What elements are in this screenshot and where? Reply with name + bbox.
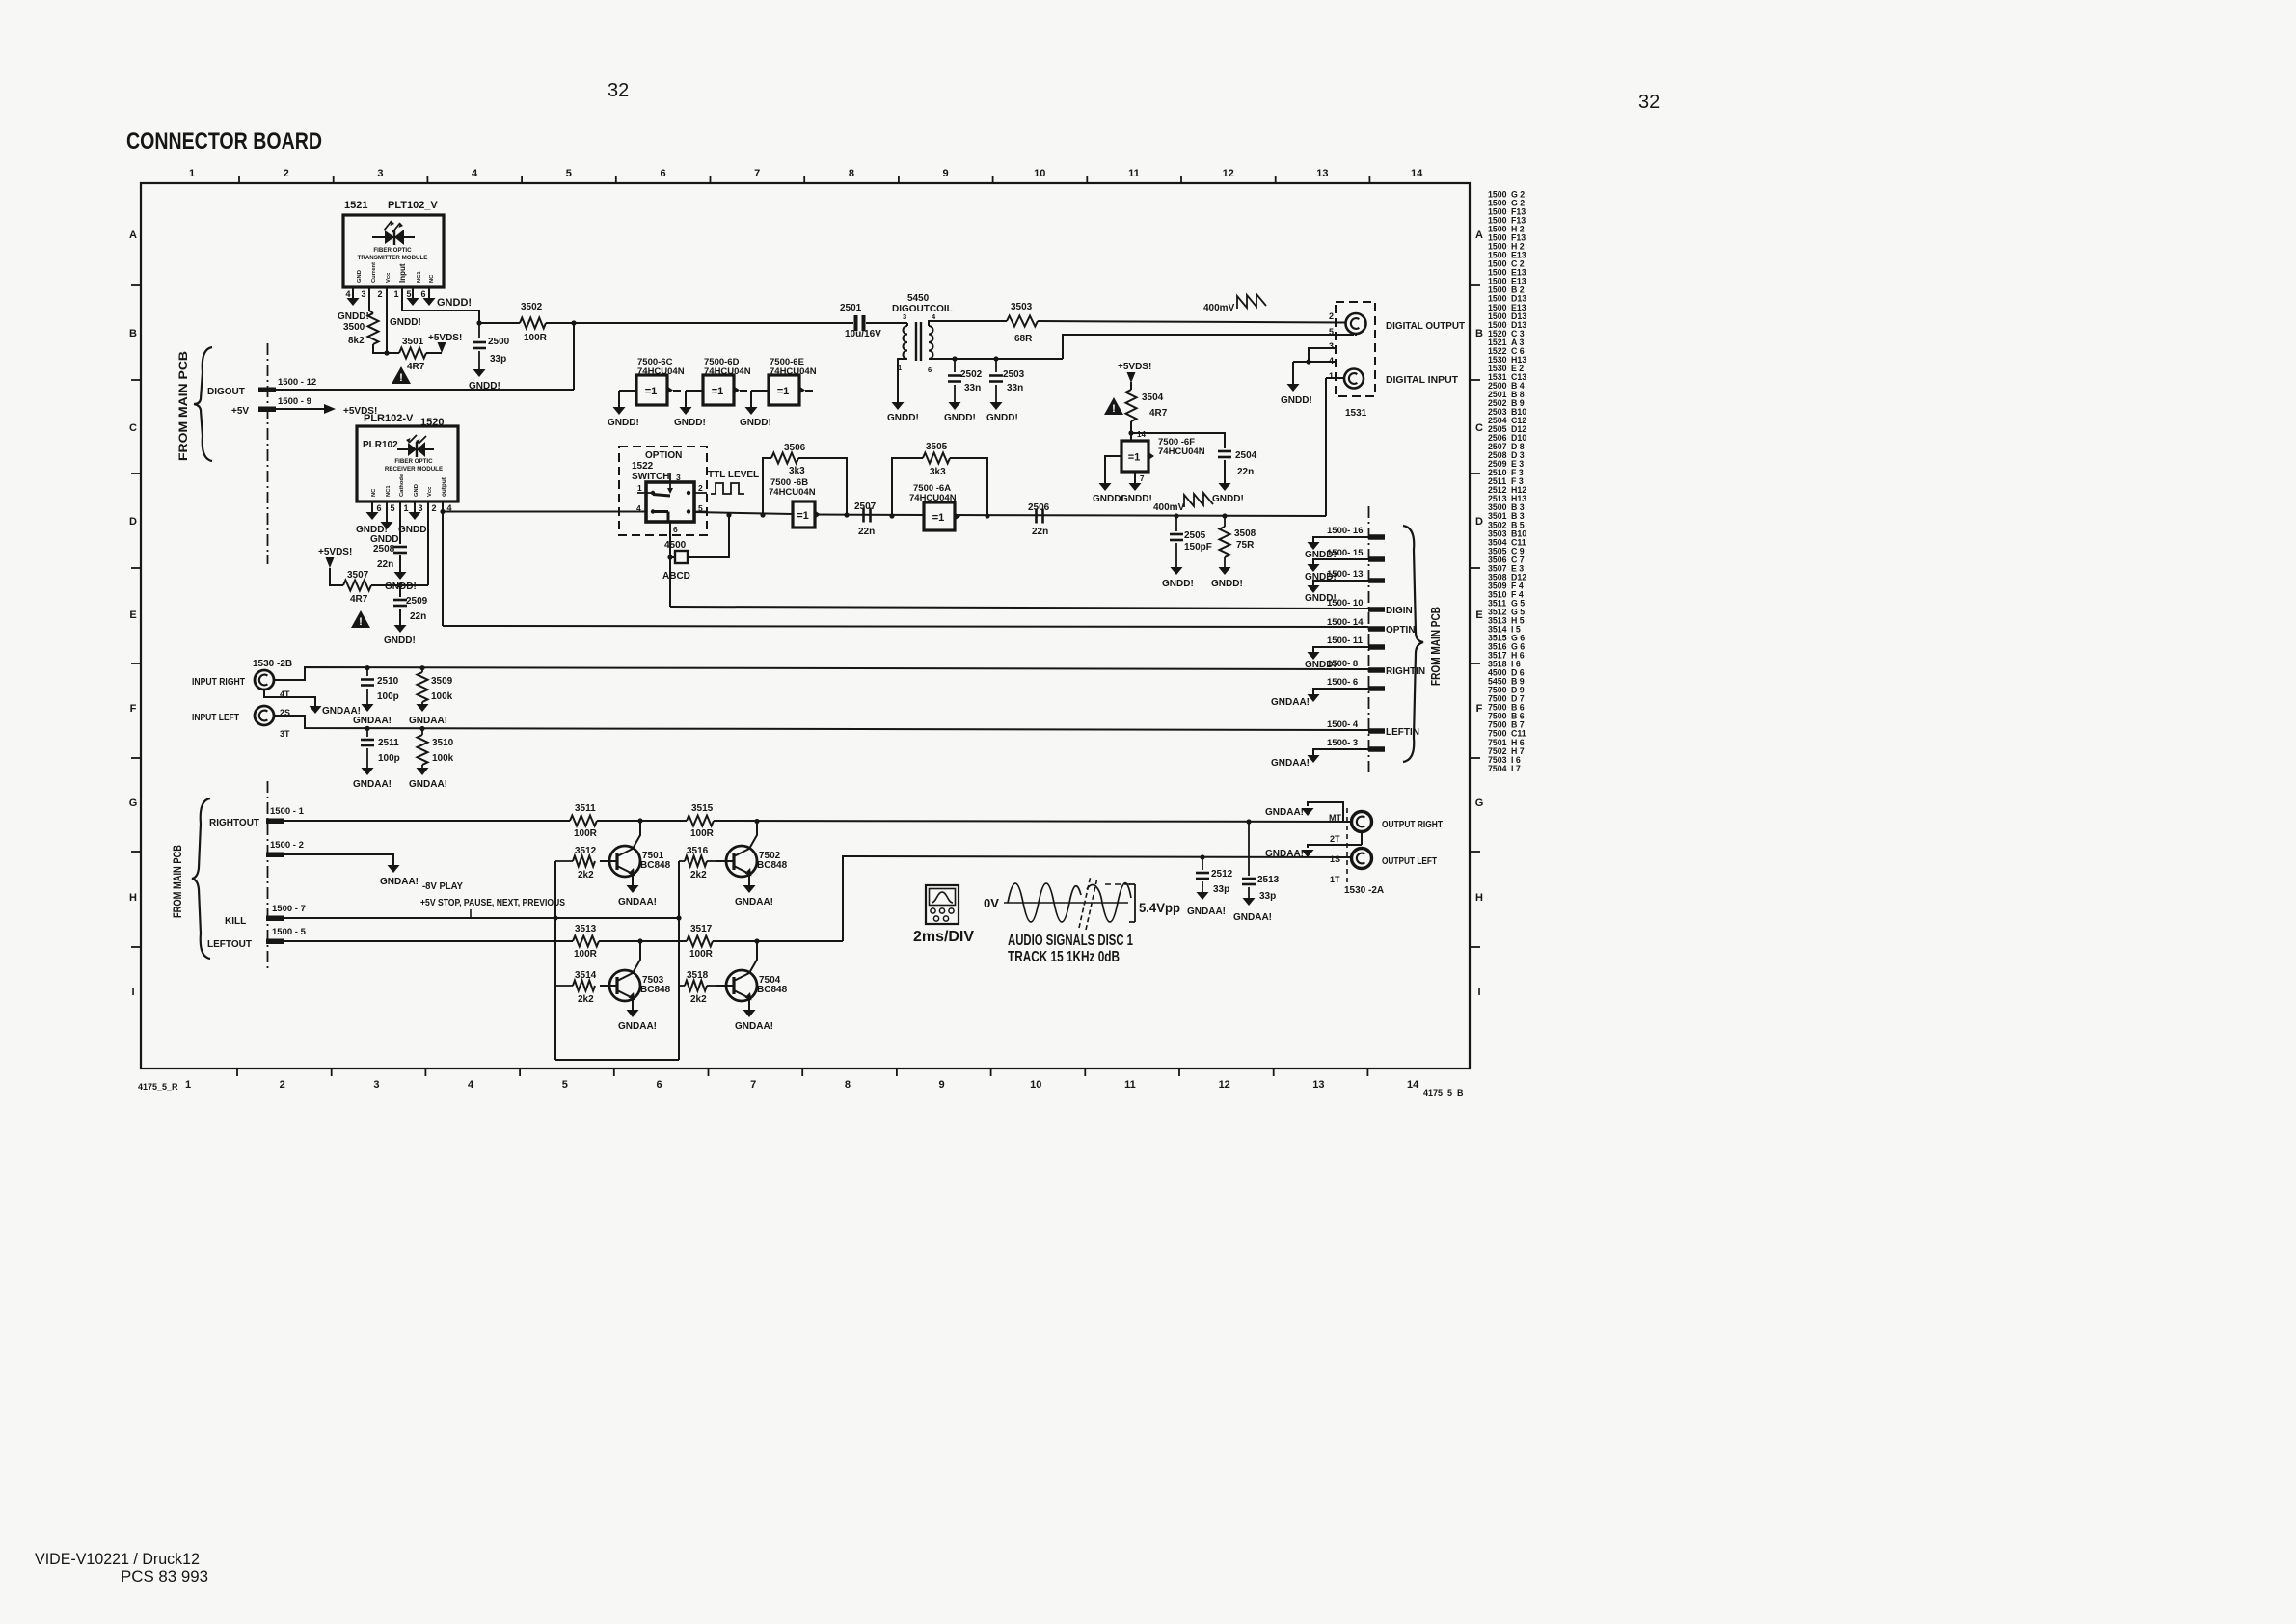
net label TTL LEVEL bbox=[708, 470, 759, 480]
fiber optic transmitter module 1521 PLT102_V bbox=[343, 200, 444, 287]
ground GNDD under C2503 bbox=[986, 402, 1018, 423]
svg-text:1: 1 bbox=[1329, 371, 1334, 381]
svg-text:OUTPUT RIGHT: OUTPUT RIGHT bbox=[1382, 819, 1443, 830]
svg-text:32: 32 bbox=[1638, 92, 1660, 113]
wire Q7503 emitter bbox=[632, 998, 634, 1010]
svg-text:2: 2 bbox=[284, 168, 289, 179]
pin label 3T bbox=[280, 729, 290, 739]
svg-text:3507: 3507 bbox=[347, 570, 369, 581]
wire C2504 to ground bbox=[1224, 460, 1226, 483]
svg-text:2: 2 bbox=[1329, 311, 1334, 321]
dash-dot connector boundary lower-left bbox=[267, 781, 269, 972]
warning triangle near R3504 bbox=[1104, 397, 1123, 415]
svg-text:GNDD!: GNDD! bbox=[887, 413, 919, 423]
svg-text:2508: 2508 bbox=[373, 544, 395, 555]
svg-text:B: B bbox=[1475, 328, 1483, 339]
brace FROM MAIN PCB right bbox=[1403, 526, 1443, 762]
wire kill riser right bbox=[678, 861, 680, 1060]
wire pin4 ground link bbox=[1293, 361, 1336, 363]
svg-text:3: 3 bbox=[418, 503, 422, 513]
net label OPTIN bbox=[1386, 625, 1416, 636]
svg-text:+5VDS!: +5VDS! bbox=[1118, 362, 1151, 372]
ground GNDAA under C2513 bbox=[1233, 898, 1272, 923]
svg-text:RECEIVER MODULE: RECEIVER MODULE bbox=[385, 466, 443, 473]
ground GNDAA under C2510 bbox=[353, 704, 392, 726]
page number 32 left bbox=[608, 80, 629, 101]
svg-text:2501: 2501 bbox=[840, 303, 862, 313]
waveform sine trace bbox=[1008, 883, 1131, 922]
svg-text:DIGIN: DIGIN bbox=[1386, 606, 1413, 616]
capacitor C2500 33p bbox=[473, 323, 510, 369]
svg-text:1: 1 bbox=[403, 503, 408, 513]
connector stub 1500-16 bbox=[1327, 526, 1385, 540]
wire digital output return bbox=[1063, 335, 1354, 359]
svg-text:3T: 3T bbox=[280, 729, 290, 739]
wire R3504 to node 14 bbox=[1131, 421, 1146, 439]
wire R3502 to C2501 bbox=[546, 322, 853, 324]
svg-text:Cathode: Cathode bbox=[399, 474, 405, 497]
svg-text:GNDAA!: GNDAA! bbox=[1187, 907, 1226, 917]
wire C2501 to transformer bbox=[866, 322, 907, 324]
net label 400mV upper with sawtooth bbox=[1203, 294, 1266, 313]
wire DIGIN to main pcb bbox=[670, 607, 1368, 609]
ground GNDAA at 1500-2 bbox=[380, 865, 419, 887]
note +5V STOP PAUSE NEXT PREVIOUS bbox=[420, 898, 565, 908]
svg-text:2500: 2500 bbox=[488, 337, 510, 347]
svg-text:33p: 33p bbox=[1259, 891, 1276, 902]
svg-text:DIGOUTCOIL: DIGOUTCOIL bbox=[892, 304, 953, 314]
svg-text:GNDAA!: GNDAA! bbox=[735, 897, 773, 907]
resistor R3518 2k2 bbox=[679, 970, 718, 1005]
wire R3513 to R3517 bbox=[599, 940, 687, 942]
svg-text:DIGITAL OUTPUT: DIGITAL OUTPUT bbox=[1386, 320, 1466, 332]
svg-text:74HCU04N: 74HCU04N bbox=[769, 487, 816, 498]
ground GNDD under C2505 bbox=[1162, 567, 1194, 589]
wire +5VDS to R3504 bbox=[1130, 382, 1132, 390]
module 1520 pin numbers 6 5 1 3 2 4 bbox=[376, 503, 451, 513]
svg-text:1500- 15: 1500- 15 bbox=[1327, 548, 1364, 558]
wire LEFTOUT to R3513 bbox=[284, 940, 573, 942]
svg-text:2k2: 2k2 bbox=[690, 994, 707, 1005]
ground GNDD pin4 of 1521 bbox=[338, 298, 369, 322]
wire 1520 pin3 bbox=[414, 501, 416, 512]
svg-text:GNDAA!: GNDAA! bbox=[735, 1021, 773, 1032]
wire to GNDD bbox=[1292, 362, 1294, 384]
switch 1522 contacts bbox=[636, 473, 707, 534]
net label LEFTIN bbox=[1386, 727, 1419, 738]
net label RIGHTIN bbox=[1386, 666, 1425, 677]
svg-text:GNDD!: GNDD! bbox=[1212, 494, 1244, 504]
oscilloscope pictogram bbox=[926, 885, 959, 924]
svg-text:5: 5 bbox=[1329, 327, 1334, 337]
svg-text:BC848: BC848 bbox=[757, 985, 788, 995]
wire stub 13 to ground bbox=[1313, 581, 1368, 585]
capacitor C2505 150pF bbox=[1170, 516, 1212, 567]
svg-text:6: 6 bbox=[660, 168, 665, 179]
power +5VDS! at R3501 bbox=[428, 333, 462, 353]
svg-text:2511: 2511 bbox=[378, 738, 399, 748]
svg-text:3514: 3514 bbox=[575, 970, 597, 981]
svg-text:1500- 14: 1500- 14 bbox=[1327, 617, 1364, 628]
power +5VDS! at R3504 bbox=[1118, 362, 1151, 383]
node junction DIGOUT riser bbox=[571, 320, 576, 325]
svg-text:GNDD!: GNDD! bbox=[986, 413, 1018, 423]
ground GNDD at stub 16 bbox=[1305, 542, 1337, 560]
connector stub KILL 1500-7 bbox=[225, 904, 306, 927]
svg-text:Current: Current bbox=[371, 262, 377, 283]
svg-text:=1: =1 bbox=[777, 386, 790, 397]
svg-text:GNDD!: GNDD! bbox=[1281, 395, 1312, 406]
tick below note bbox=[470, 909, 472, 917]
wire 6E input ground bbox=[751, 391, 769, 407]
inverter U7500-6D 74HCU04N bbox=[703, 357, 751, 405]
svg-text:D: D bbox=[129, 516, 137, 528]
node junction R3505 left bbox=[889, 513, 894, 518]
connector stub 1500-15 bbox=[1327, 548, 1385, 562]
connector stub 1500-2 bbox=[266, 840, 304, 857]
svg-text:100p: 100p bbox=[378, 753, 400, 764]
svg-text:8: 8 bbox=[849, 168, 854, 179]
svg-text:100R: 100R bbox=[524, 333, 548, 343]
resistor R3505 3k3 feedback bbox=[892, 442, 987, 516]
node junction receiver output bbox=[440, 509, 445, 514]
svg-text:!: ! bbox=[399, 372, 403, 384]
svg-text:GNDD!: GNDD! bbox=[390, 317, 421, 328]
power +5VDS! at R3507 bbox=[318, 547, 352, 568]
svg-text:14: 14 bbox=[1411, 168, 1423, 179]
svg-text:1: 1 bbox=[189, 168, 195, 179]
ground GNDD pin6 of 1520 bbox=[356, 512, 388, 535]
node junction C2503 bbox=[993, 356, 998, 361]
net label +5VDS! at arrow bbox=[343, 406, 377, 417]
svg-text:1500- 16: 1500- 16 bbox=[1327, 526, 1364, 536]
svg-text:=1: =1 bbox=[797, 510, 809, 522]
wire Q7501 collector bbox=[633, 821, 640, 849]
waveform break slashes bbox=[1079, 876, 1097, 930]
svg-text:1500- 10: 1500- 10 bbox=[1327, 598, 1364, 609]
svg-text:KILL: KILL bbox=[225, 916, 246, 927]
svg-text:=1: =1 bbox=[645, 386, 658, 397]
svg-text:68R: 68R bbox=[1014, 334, 1033, 344]
svg-text:1T: 1T bbox=[1330, 875, 1340, 884]
svg-text:2k2: 2k2 bbox=[578, 994, 594, 1005]
inverter U7500-6E 74HCU04N bbox=[769, 357, 817, 405]
fiber optic receiver module 1520 PLR102-V bbox=[357, 413, 458, 501]
svg-text:150pF: 150pF bbox=[1184, 542, 1212, 553]
svg-text:5450: 5450 bbox=[907, 293, 930, 304]
svg-text:2: 2 bbox=[280, 1079, 285, 1091]
wire kill riser left bbox=[554, 861, 556, 1060]
connector stub +5V 1500-9 bbox=[231, 396, 311, 417]
wire RIGHTOUT to R3511 bbox=[284, 820, 570, 822]
svg-text:GNDAA!: GNDAA! bbox=[380, 877, 419, 887]
connector stub RIGHTOUT 1500-1 bbox=[209, 806, 305, 828]
svg-text:400mV: 400mV bbox=[1153, 502, 1185, 513]
svg-text:OUTPUT LEFT: OUTPUT LEFT bbox=[1382, 855, 1437, 867]
wire pin3 ground link bbox=[1309, 348, 1336, 362]
svg-text:2: 2 bbox=[431, 503, 436, 513]
svg-text:FROM MAIN PCB: FROM MAIN PCB bbox=[173, 845, 184, 918]
rca jack DIGITAL INPUT bbox=[1344, 369, 1459, 389]
wire 1500-2 to ground bbox=[284, 854, 393, 865]
svg-text:GNDAA!: GNDAA! bbox=[353, 779, 392, 790]
wire 6F pin7 bbox=[1135, 472, 1145, 483]
wire DIGOUT from main pcb bbox=[271, 389, 574, 391]
wire Q7503 collector bbox=[633, 941, 640, 973]
svg-text:GNDD!: GNDD! bbox=[338, 311, 369, 322]
svg-text:!: ! bbox=[359, 616, 363, 628]
svg-text:GNDD!: GNDD! bbox=[608, 418, 639, 428]
svg-text:22n: 22n bbox=[1237, 467, 1254, 477]
wire 6C input ground bbox=[619, 391, 636, 407]
node junction R3509 bbox=[419, 665, 424, 670]
svg-text:7: 7 bbox=[1140, 474, 1145, 483]
svg-text:GND: GND bbox=[357, 270, 363, 283]
svg-text:2510: 2510 bbox=[377, 676, 399, 687]
svg-text:3: 3 bbox=[377, 168, 383, 179]
node junction R3510 bbox=[419, 726, 424, 731]
transformer 5450 DIGOUTCOIL bbox=[892, 293, 953, 374]
svg-text:1500 - 12: 1500 - 12 bbox=[278, 377, 316, 388]
svg-text:GNDAA!: GNDAA! bbox=[1271, 758, 1310, 769]
wire node to R3502 bbox=[479, 322, 520, 324]
capacitor C2512 33p bbox=[1196, 857, 1233, 895]
node junction R3506 left bbox=[760, 512, 765, 517]
svg-text:=1: =1 bbox=[932, 512, 945, 524]
svg-text:2513: 2513 bbox=[1257, 875, 1280, 885]
waveform 0V axis bbox=[984, 896, 1128, 910]
ground GNDD pin5 of 1520 bbox=[370, 522, 402, 545]
ground GNDAA Q7501 bbox=[618, 885, 657, 907]
capacitor C2507 22n series bbox=[854, 501, 877, 537]
svg-text:33p: 33p bbox=[490, 354, 506, 365]
resistor R3512 2k2 bbox=[555, 846, 597, 880]
node junction pin14 bbox=[1128, 430, 1133, 435]
svg-text:3504: 3504 bbox=[1142, 392, 1164, 403]
svg-text:4: 4 bbox=[636, 503, 641, 513]
resistor R3506 3k3 feedback bbox=[763, 443, 847, 515]
note AUDIO SIGNALS DISC 1 bbox=[1008, 933, 1133, 949]
wire 1521 pin5 bbox=[412, 287, 414, 298]
transistor Q7503 BC848 bbox=[600, 970, 671, 1001]
svg-text:A: A bbox=[129, 230, 137, 241]
capacitor C2510 100p bbox=[361, 668, 399, 704]
pin label 1S bbox=[1330, 854, 1340, 864]
svg-text:2504: 2504 bbox=[1235, 450, 1257, 461]
svg-text:1: 1 bbox=[185, 1079, 191, 1091]
rca jack OUTPUT RIGHT bbox=[1352, 812, 1444, 832]
ground GNDD pin5 of 1521 bbox=[407, 298, 419, 306]
wire node14 to gate 6F bbox=[1130, 433, 1132, 441]
svg-text:GNDD!: GNDD! bbox=[384, 636, 416, 646]
svg-text:GNDD!: GNDD! bbox=[398, 525, 430, 535]
net label 400mV lower with sawtooth bbox=[1153, 493, 1213, 513]
svg-text:OPTIN: OPTIN bbox=[1386, 625, 1416, 636]
wire OPTIN to main pcb bbox=[443, 626, 1368, 627]
svg-text:1500 - 7: 1500 - 7 bbox=[272, 904, 306, 914]
svg-text:GNDD!: GNDD! bbox=[1162, 579, 1194, 589]
ground GNDD at stub 11 bbox=[1305, 652, 1337, 670]
node junction Q7501 collector bbox=[637, 818, 642, 823]
svg-text:4500: 4500 bbox=[664, 540, 687, 551]
wire R3511 to R3515 bbox=[597, 820, 687, 822]
svg-text:G: G bbox=[1475, 798, 1484, 809]
svg-text:3k3: 3k3 bbox=[930, 467, 946, 477]
inverter U7500-6B 74HCU04N bbox=[769, 477, 821, 528]
capacitor C2504 22n bbox=[1218, 450, 1257, 477]
svg-text:3: 3 bbox=[903, 312, 906, 321]
ground GNDD at stub 15 bbox=[1305, 564, 1337, 582]
svg-text:1500- 8: 1500- 8 bbox=[1327, 659, 1358, 669]
svg-text:F: F bbox=[1476, 703, 1483, 715]
transistor Q7504 BC848 bbox=[716, 970, 788, 1001]
node junction C2513 tap bbox=[1246, 819, 1251, 824]
svg-text:!: ! bbox=[1112, 403, 1116, 415]
wire TTL level line bbox=[694, 512, 1326, 516]
wire 1520 pin6 bbox=[371, 501, 373, 512]
svg-text:3501: 3501 bbox=[402, 337, 424, 347]
ground GNDD pin6 of 1521 bbox=[423, 297, 473, 309]
brace FROM MAIN PCB top-left bbox=[176, 347, 212, 461]
svg-text:11: 11 bbox=[1128, 168, 1140, 179]
wire input right to line bbox=[274, 667, 1368, 680]
svg-text:+5VDS!: +5VDS! bbox=[428, 333, 462, 343]
wire Q7504 collector bbox=[749, 941, 757, 973]
ground GNDAA Q7502 bbox=[735, 885, 773, 907]
svg-text:I 7: I 7 bbox=[1511, 764, 1521, 773]
node junction C2511 bbox=[365, 726, 369, 731]
resistor R3515 100R bbox=[687, 803, 715, 839]
svg-text:GNDAA!: GNDAA! bbox=[618, 897, 657, 907]
resistor R3502 100R bbox=[520, 302, 548, 343]
svg-text:5: 5 bbox=[566, 168, 572, 179]
capacitor C2511 100p bbox=[361, 728, 400, 768]
svg-text:3: 3 bbox=[1329, 341, 1334, 351]
svg-text:GNDAA!: GNDAA! bbox=[409, 779, 447, 790]
svg-text:33n: 33n bbox=[1007, 383, 1023, 393]
ground GNDAA under R3510 bbox=[409, 768, 447, 790]
svg-text:75R: 75R bbox=[1236, 540, 1255, 551]
svg-text:C: C bbox=[129, 422, 137, 434]
svg-text:1: 1 bbox=[393, 289, 398, 299]
wire 1520 pin1 cathode bbox=[399, 501, 401, 544]
svg-text:1531: 1531 bbox=[1345, 408, 1367, 419]
connector 1530-2A dashed boundary bbox=[1346, 808, 1348, 885]
capacitor C2506 22n series bbox=[1028, 502, 1050, 537]
wire primary top bbox=[906, 323, 908, 326]
wire 1520 pin5 bbox=[386, 501, 388, 522]
svg-text:GNDAA!: GNDAA! bbox=[353, 716, 392, 726]
brace FROM MAIN PCB bottom-left bbox=[173, 798, 210, 959]
svg-text:FIBER OPTIC: FIBER OPTIC bbox=[394, 458, 433, 465]
node junction kill right riser bbox=[676, 915, 681, 920]
svg-text:BC848: BC848 bbox=[757, 860, 788, 871]
waveform peak dashed level bbox=[1105, 883, 1132, 885]
svg-text:+5V: +5V bbox=[231, 406, 249, 417]
svg-text:GNDD!: GNDD! bbox=[740, 418, 771, 428]
connector stub 1500-14 bbox=[1327, 617, 1385, 632]
drawing id 4175_5_R bbox=[138, 1082, 178, 1092]
note TRACK 15 1KHz 0dB bbox=[1008, 949, 1120, 965]
svg-text:1520: 1520 bbox=[420, 417, 444, 428]
ground GNDD under C2502 bbox=[944, 402, 976, 423]
wire 1521 pin1 input bbox=[402, 287, 479, 323]
svg-text:13: 13 bbox=[1316, 168, 1328, 179]
wire R3501 to +5VDS bbox=[426, 352, 442, 354]
svg-text:H: H bbox=[1475, 892, 1483, 904]
svg-text:2507: 2507 bbox=[854, 501, 877, 512]
wire R3503 to digital output jack bbox=[1038, 321, 1345, 323]
pin label 2S bbox=[280, 708, 290, 717]
wire R3515 to output right bbox=[714, 821, 1352, 822]
ground GNDD under transformer bbox=[887, 402, 919, 423]
rca jack INPUT LEFT bbox=[192, 706, 274, 725]
node junction Q7502 collector bbox=[754, 819, 759, 824]
module 1521 pin numbers 4 3 2 1 5 6 bbox=[345, 289, 425, 299]
connector stub 1500-10 bbox=[1327, 598, 1385, 612]
svg-text:RIGHTIN: RIGHTIN bbox=[1386, 666, 1425, 677]
svg-text:3506: 3506 bbox=[784, 443, 806, 453]
wire jack pin5 stem bbox=[1355, 334, 1357, 336]
wire receiver output to switch bbox=[443, 511, 646, 513]
wire R3500 to node bbox=[373, 344, 399, 353]
svg-text:E: E bbox=[1475, 609, 1482, 621]
svg-text:3510: 3510 bbox=[432, 738, 454, 748]
wire stub 16 to ground bbox=[1313, 537, 1368, 542]
wire 2T link bbox=[1361, 832, 1363, 845]
pin label 1T bbox=[1330, 875, 1340, 884]
svg-text:33n: 33n bbox=[964, 383, 981, 393]
svg-text:2503: 2503 bbox=[1003, 369, 1025, 380]
ground GNDD under C2500 bbox=[469, 369, 500, 392]
rca jack OUTPUT LEFT bbox=[1352, 849, 1438, 869]
svg-text:TTL LEVEL: TTL LEVEL bbox=[708, 470, 759, 480]
svg-text:1S: 1S bbox=[1330, 854, 1340, 864]
svg-text:3518: 3518 bbox=[687, 970, 709, 981]
wire 1520 pin4 output bbox=[442, 501, 444, 511]
option switch 1522 dashed enclosure bbox=[619, 447, 707, 535]
ground GNDD at 6F input bbox=[1093, 483, 1124, 504]
svg-text:CONNECTOR BOARD: CONNECTOR BOARD bbox=[126, 128, 322, 154]
svg-text:100k: 100k bbox=[432, 753, 454, 764]
svg-text:3k3: 3k3 bbox=[789, 466, 805, 476]
connector 1531 dashed enclosure bbox=[1336, 302, 1375, 419]
svg-text:10u/16V: 10u/16V bbox=[845, 329, 881, 339]
wire input left to line bbox=[274, 716, 1368, 730]
svg-text:3: 3 bbox=[361, 289, 365, 299]
node junction C2512 tap bbox=[1200, 854, 1204, 859]
svg-text:33p: 33p bbox=[1213, 884, 1229, 895]
svg-text:I: I bbox=[1477, 987, 1480, 998]
resistor R3510 100k bbox=[418, 728, 454, 768]
svg-text:32: 32 bbox=[608, 80, 629, 101]
resistor R3504 4R7 bbox=[1126, 390, 1168, 421]
svg-text:100p: 100p bbox=[377, 691, 399, 702]
svg-text:GNDAA!: GNDAA! bbox=[1233, 912, 1272, 923]
svg-text:1530 -2B: 1530 -2B bbox=[253, 659, 292, 669]
svg-text:NC1: NC1 bbox=[417, 271, 422, 283]
svg-text:+5VDS!: +5VDS! bbox=[318, 547, 352, 557]
wire OPTIN drop bbox=[442, 512, 444, 627]
svg-text:GNDD!: GNDD! bbox=[944, 413, 976, 423]
resistor R3509 100k bbox=[418, 668, 453, 704]
svg-text:DIGITAL INPUT: DIGITAL INPUT bbox=[1386, 374, 1459, 386]
svg-text:3513: 3513 bbox=[575, 924, 597, 934]
svg-text:3511: 3511 bbox=[575, 803, 596, 814]
ferrite bead 4500 ABCD bbox=[662, 540, 690, 582]
wire Q7502 collector bbox=[749, 821, 757, 849]
svg-text:4: 4 bbox=[468, 1079, 474, 1091]
